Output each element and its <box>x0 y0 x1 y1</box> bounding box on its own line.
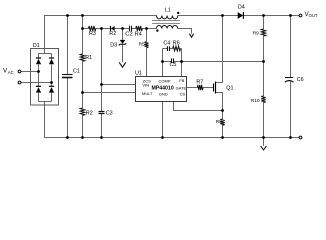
capacitor C2 <box>125 26 132 38</box>
junction at (122.5,28.5) <box>121 27 124 30</box>
wire: C3 to bottom rail <box>101 114 103 138</box>
diode D1.1 (top left) <box>36 58 41 64</box>
junction at (290.5,15.5) <box>289 14 292 17</box>
diode R2 (horizontal, after R3) <box>109 26 116 37</box>
wire: C1 top lead <box>67 16 69 75</box>
svg-text:GND: GND <box>159 91 168 96</box>
wire: R2 to bottom rail <box>82 115 84 137</box>
junction at (222.5,137.5) <box>221 136 224 139</box>
svg-text:C6: C6 <box>297 77 304 83</box>
wire: L1 to D4 <box>178 15 239 17</box>
svg-text:C1: C1 <box>73 69 80 75</box>
svg-text:R3: R3 <box>89 31 96 37</box>
svg-text:R1: R1 <box>85 55 92 61</box>
wire: C6 top lead <box>290 16 292 78</box>
wire: R3 to diode <box>96 28 110 30</box>
inductor/transformer L1 primary winding <box>157 7 180 19</box>
svg-text:R10: R10 <box>251 98 260 104</box>
diode D1.4 (bottom right) <box>49 86 54 92</box>
resistor R4 <box>135 26 143 38</box>
wire: C6 bottom lead <box>290 81 292 137</box>
capacitor C3 <box>99 111 113 117</box>
svg-text:GATE: GATE <box>176 85 187 90</box>
wire: Q1 source to CS node <box>216 93 223 111</box>
junction at (82.5,137.5) <box>81 136 84 139</box>
wire: Q1 drain to top rail <box>222 16 224 83</box>
zener diode D3 <box>110 40 126 49</box>
wire: rail to R1 branch <box>82 16 84 55</box>
wire: bottom rail to ground symbol <box>263 138 265 146</box>
wire: R5 top lead <box>146 29 148 42</box>
ground (aux winding) <box>189 34 193 38</box>
svg-text:C3: C3 <box>106 111 113 117</box>
svg-text:R7: R7 <box>196 79 203 85</box>
svg-text:FB: FB <box>179 78 184 83</box>
diode D4 <box>238 4 245 19</box>
resistor R1 <box>80 54 92 61</box>
wire: top DC rail from bridge to L1 <box>21 16 299 146</box>
junction at (82.5,92.5) <box>81 91 84 94</box>
diode bridge D1 box <box>31 43 59 105</box>
wire: C2 to R4 <box>132 28 136 30</box>
wire: D4 to VOUT terminal <box>243 15 299 17</box>
svg-text:D3: D3 <box>110 43 117 49</box>
wire: D3 to ground <box>122 45 124 63</box>
wire: R4 to aux winding <box>142 28 156 30</box>
junction at (162.5,137.5) <box>161 136 164 139</box>
junction at (51.5,82.5) <box>50 81 53 84</box>
wire: D3 top lead <box>122 29 124 40</box>
wire: R3 junction down to C3 <box>101 29 103 112</box>
wire: R7 to Q1 gate <box>203 87 213 89</box>
resistor R5 <box>139 41 149 47</box>
wire: GND pin to bottom rail <box>162 102 164 138</box>
wire: GATE pin to R7 <box>187 87 198 89</box>
junction at (181.5,61.5) <box>180 60 183 63</box>
svg-text:R8: R8 <box>216 119 222 125</box>
junction at (222.5,110.5) <box>221 109 224 112</box>
diode D1.3 (bottom left) <box>36 86 41 92</box>
wire: CS node to R8 <box>222 111 224 120</box>
wire: bridge right column <box>51 54 53 59</box>
resistor R9 <box>253 29 266 37</box>
svg-text:CS: CS <box>180 91 186 96</box>
svg-text:AC: AC <box>8 70 14 75</box>
svg-text:Q1: Q1 <box>226 86 233 92</box>
svg-text:R6: R6 <box>173 41 180 47</box>
junction at (67.5,137.5) <box>66 136 69 139</box>
wire: CS pin route <box>174 102 223 111</box>
wire: COMP pin vertical <box>162 49 164 77</box>
svg-text:R4: R4 <box>135 32 143 38</box>
wire: FB line to output divider <box>182 61 264 63</box>
wire: FB pin vertical <box>181 49 183 77</box>
resistor R8 <box>216 119 225 125</box>
wire: R9 to R10 feedback node <box>263 36 265 96</box>
node VOUT output terminals <box>299 11 318 139</box>
capacitor C4 <box>163 41 170 52</box>
wire: Q1 drain stub <box>216 82 223 84</box>
wire: comp RC top branch <box>163 48 168 50</box>
junction at (82.5,15.5) <box>81 14 84 17</box>
wire: bottom return rail <box>45 102 300 138</box>
wire: VIN pin line <box>102 84 136 86</box>
svg-text:R9: R9 <box>253 31 259 37</box>
junction at (263.5,15.5) <box>262 14 265 17</box>
svg-text:C5: C5 <box>170 62 177 68</box>
L1 core <box>152 21 180 24</box>
junction at (146.5,28.5) <box>145 27 148 30</box>
wire: VAC line 1 <box>21 71 39 73</box>
svg-text:COMP: COMP <box>159 78 171 83</box>
wire: bridge top connector <box>39 53 52 55</box>
junction at (162.5,61.5) <box>161 60 164 63</box>
junction at (263.5,137.5) <box>262 136 265 139</box>
svg-text:C2: C2 <box>125 32 132 38</box>
svg-text:U1: U1 <box>135 71 142 77</box>
wire: row2 segment rail to R3 <box>83 28 89 30</box>
junction at (82.5,28.5) <box>81 27 84 30</box>
junction at (263.5,61.5) <box>262 60 265 63</box>
svg-text:D4: D4 <box>238 4 245 10</box>
resistor R10 <box>251 96 266 104</box>
wire: MULT pin line <box>83 92 136 94</box>
capacitor C6 <box>285 77 304 83</box>
wire: diode to C2 <box>115 28 130 30</box>
L1 auxiliary winding <box>156 25 177 31</box>
svg-text:R2: R2 <box>86 110 93 116</box>
junction at (67.5,15.5) <box>66 14 69 17</box>
resistor R6 <box>173 41 181 51</box>
ground (below D3) <box>119 62 126 67</box>
svg-text:D1: D1 <box>33 43 40 49</box>
wire: R1 to R2 divider <box>82 61 84 108</box>
wire: R5 to U1 ZCS <box>146 48 148 77</box>
resistor R3 <box>89 26 96 37</box>
junction at (101.5,137.5) <box>100 136 103 139</box>
ground (output return) <box>261 146 267 150</box>
svg-text:R5: R5 <box>139 41 145 47</box>
resistor R2 (lower divider) <box>80 108 92 116</box>
junction at (38.5,71.5) <box>37 70 40 73</box>
svg-text:VIN: VIN <box>142 82 149 87</box>
wire: VAC line 2 <box>21 82 52 84</box>
svg-text:C4: C4 <box>163 41 170 47</box>
svg-text:MULT: MULT <box>142 91 153 96</box>
transistor Q1 (MOSFET) <box>214 82 234 94</box>
resistor R7 <box>196 79 203 90</box>
wire: bridge left column <box>38 54 40 59</box>
capacitor C1 <box>62 69 80 78</box>
wire: aux winding to ground <box>178 29 192 34</box>
svg-text:R2: R2 <box>109 31 116 37</box>
junction at (101.5,28.5) <box>100 27 103 30</box>
svg-text:OUT: OUT <box>309 13 318 18</box>
junction at (222.5,15.5) <box>221 14 224 17</box>
op-amp U1 MP44010 PFC controller <box>135 71 187 102</box>
wire: R10 to bottom rail <box>263 103 265 138</box>
junction at (101.5,84.5) <box>100 83 103 86</box>
wire: R8 to bottom rail <box>222 125 224 137</box>
node VAC input terminals <box>3 68 21 84</box>
diode D1.2 (top right) <box>49 58 54 64</box>
wire: comp C5 branch <box>163 61 172 63</box>
wire: C1 bottom lead <box>67 78 69 138</box>
wire: bridge bottom connector <box>39 101 52 103</box>
capacitor C5 <box>170 58 177 68</box>
junction at (290.5,137.5) <box>289 136 292 139</box>
svg-text:L1: L1 <box>165 7 171 13</box>
wire: rail to R9 <box>263 16 265 30</box>
